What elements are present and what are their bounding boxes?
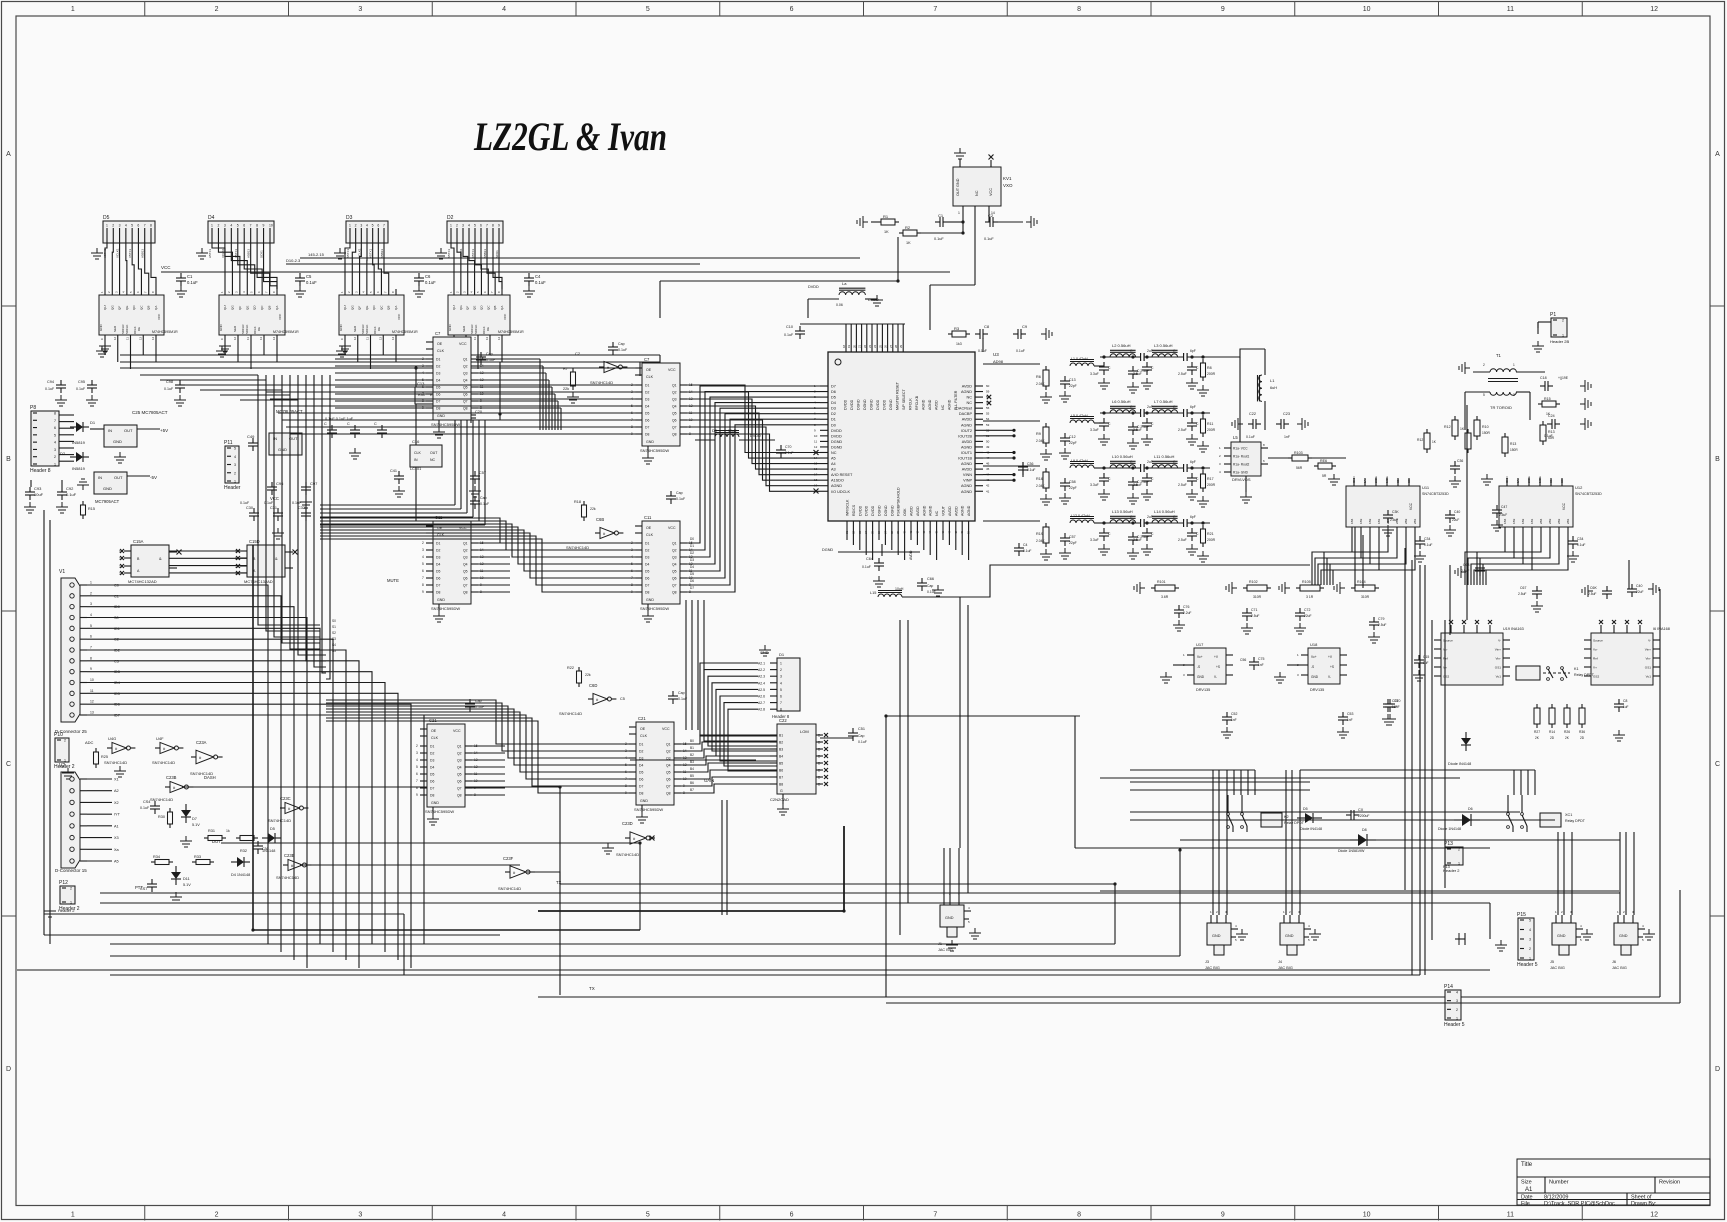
svg-text:D7: D7 bbox=[831, 385, 836, 389]
svg-text:U4G: U4G bbox=[108, 736, 116, 741]
svg-text:C67: C67 bbox=[1520, 586, 1526, 590]
svg-text:OE: OE bbox=[646, 526, 652, 530]
svg-text:7: 7 bbox=[383, 224, 385, 228]
svg-text:C4: C4 bbox=[535, 274, 541, 279]
svg-text:D5: D5 bbox=[436, 386, 440, 390]
svg-text:2: 2 bbox=[780, 668, 782, 672]
svg-text:D2: D2 bbox=[645, 391, 649, 395]
svg-text:8: 8 bbox=[422, 583, 424, 587]
svg-text:13: 13 bbox=[683, 756, 687, 760]
svg-text:OE: OE bbox=[431, 729, 437, 733]
svg-text:C2N2OAD: C2N2OAD bbox=[770, 797, 789, 802]
svg-text:3: 3 bbox=[422, 548, 424, 552]
svg-text:Q6: Q6 bbox=[672, 419, 677, 423]
svg-text:4: 4 bbox=[1529, 928, 1531, 932]
svg-text:C36: C36 bbox=[1027, 462, 1033, 466]
svg-text:14: 14 bbox=[814, 456, 818, 460]
svg-text:18: 18 bbox=[842, 344, 846, 348]
svg-text:2.5uF: 2.5uF bbox=[1518, 592, 1526, 596]
svg-text:22k: 22k bbox=[590, 507, 596, 511]
svg-text:GND: GND bbox=[646, 598, 654, 602]
svg-text:16: 16 bbox=[814, 467, 818, 471]
svg-text:DGND: DGND bbox=[863, 399, 867, 410]
svg-text:CLK: CLK bbox=[646, 533, 654, 537]
svg-text:C23F: C23F bbox=[503, 856, 514, 861]
svg-text:A5: A5 bbox=[114, 860, 119, 864]
svg-text:4: 4 bbox=[780, 681, 782, 685]
svg-text:11: 11 bbox=[814, 439, 817, 443]
svg-text:C53: C53 bbox=[1347, 712, 1353, 716]
svg-text:10: 10 bbox=[90, 678, 94, 682]
svg-text:1uF: 1uF bbox=[1392, 705, 1398, 709]
svg-text:C: C bbox=[347, 422, 350, 426]
svg-text:0.1uF: 0.1uF bbox=[164, 387, 174, 391]
svg-text:Cap: Cap bbox=[858, 734, 864, 738]
svg-text:C23C: C23C bbox=[280, 796, 291, 801]
svg-text:3.3uF: 3.3uF bbox=[1090, 538, 1099, 542]
svg-text:QF: QF bbox=[358, 306, 362, 310]
svg-text:S1: S1 bbox=[1549, 479, 1553, 483]
svg-text:10uF: 10uF bbox=[34, 492, 44, 497]
svg-text:1: 1 bbox=[70, 901, 72, 905]
svg-text:JAC BIG: JAC BIG bbox=[1278, 966, 1293, 970]
svg-text:12: 12 bbox=[683, 763, 687, 767]
svg-text:2uF: 2uF bbox=[1147, 460, 1153, 464]
svg-text:4: 4 bbox=[502, 1212, 506, 1219]
svg-text:GND: GND bbox=[640, 799, 648, 803]
svg-text:A1: A1 bbox=[114, 824, 119, 828]
svg-text:SN74HC595DW: SN74HC595DW bbox=[640, 606, 669, 611]
svg-text:U19 INA163: U19 INA163 bbox=[1503, 627, 1524, 631]
svg-text:S/P SELECT: S/P SELECT bbox=[902, 388, 906, 410]
svg-text:0.1uF: 0.1uF bbox=[306, 280, 317, 285]
svg-text:C: C bbox=[1715, 761, 1720, 768]
svg-text:V-: V- bbox=[1214, 675, 1217, 679]
svg-text:DVDD: DVDD bbox=[865, 505, 869, 516]
svg-text:DVDD: DVDD bbox=[883, 399, 887, 410]
svg-text:R16: R16 bbox=[1036, 477, 1043, 481]
svg-text:R101: R101 bbox=[1157, 580, 1166, 584]
svg-text:A4: A4 bbox=[831, 462, 836, 466]
svg-text:Q5: Q5 bbox=[463, 386, 468, 390]
svg-text:8: 8 bbox=[90, 656, 92, 660]
svg-text:A: A bbox=[6, 151, 11, 158]
svg-text:LOM: LOM bbox=[800, 729, 809, 734]
svg-text:1B1: 1B1 bbox=[1530, 518, 1534, 524]
svg-text:QF: QF bbox=[466, 306, 470, 310]
svg-text:25: 25 bbox=[878, 344, 882, 348]
svg-text:QG: QG bbox=[459, 305, 463, 310]
svg-text:SN74HC14D: SN74HC14D bbox=[498, 886, 521, 891]
svg-text:Number: Number bbox=[1549, 1180, 1569, 1186]
svg-text:DGND: DGND bbox=[870, 399, 874, 410]
svg-text:0.1uF: 0.1uF bbox=[140, 806, 150, 810]
svg-text:C 2.5uF: C 2.5uF bbox=[1137, 480, 1149, 484]
svg-text:Vo-: Vo- bbox=[1593, 648, 1598, 652]
svg-text:Q8: Q8 bbox=[672, 591, 677, 595]
svg-text:2: 2 bbox=[456, 224, 458, 228]
svg-text:1: 1 bbox=[106, 224, 108, 228]
svg-text:GND: GND bbox=[1352, 476, 1356, 484]
svg-text:D3: D3 bbox=[831, 407, 836, 411]
svg-text:2B2: 2B2 bbox=[1557, 518, 1561, 524]
svg-text:4: 4 bbox=[125, 224, 127, 228]
svg-text:0.1uF: 0.1uF bbox=[785, 451, 793, 455]
svg-text:Q6: Q6 bbox=[666, 778, 671, 782]
svg-text:X5TX1: X5TX1 bbox=[471, 248, 475, 258]
svg-text:NC: NC bbox=[935, 510, 939, 516]
svg-text:NC: NC bbox=[967, 401, 973, 405]
svg-text:3.3uF: 3.3uF bbox=[1090, 372, 1099, 376]
svg-text:0.1uF: 0.1uF bbox=[862, 565, 871, 569]
svg-text:U3: U3 bbox=[993, 352, 999, 357]
svg-text:Q8: Q8 bbox=[457, 794, 462, 798]
svg-text:VCC: VCC bbox=[989, 188, 993, 196]
svg-text:R25: R25 bbox=[101, 755, 108, 759]
svg-text:Title: Title bbox=[1521, 1162, 1533, 1168]
svg-text:P13: P13 bbox=[1443, 865, 1450, 869]
svg-text:1B4: 1B4 bbox=[1503, 518, 1507, 524]
svg-text:AGND: AGND bbox=[961, 484, 972, 488]
svg-text:S1: S1 bbox=[1396, 479, 1400, 483]
svg-text:3: 3 bbox=[358, 1212, 362, 1219]
svg-text:A2.8: A2.8 bbox=[758, 708, 765, 712]
svg-text:C3K: C3K bbox=[1392, 510, 1399, 514]
svg-text:GND: GND bbox=[1311, 675, 1319, 679]
svg-text:VINN: VINN bbox=[963, 473, 972, 477]
svg-text:55: 55 bbox=[986, 412, 990, 416]
svg-text:GND: GND bbox=[99, 324, 103, 332]
svg-text:6: 6 bbox=[416, 772, 418, 776]
svg-text:L1: L1 bbox=[1270, 378, 1275, 383]
svg-text:AGND: AGND bbox=[831, 484, 842, 488]
svg-text:0.1uF: 0.1uF bbox=[240, 501, 250, 505]
svg-text:9: 9 bbox=[1221, 1212, 1225, 1219]
svg-text:C: C bbox=[6, 761, 11, 768]
svg-text:R1a- VCC: R1a- VCC bbox=[1233, 447, 1248, 451]
svg-text:1: 1 bbox=[211, 224, 213, 228]
svg-text:6pF: 6pF bbox=[1190, 349, 1196, 353]
svg-text:B8: B8 bbox=[779, 783, 783, 787]
svg-text:Q6: Q6 bbox=[463, 577, 468, 581]
svg-text:Cap: Cap bbox=[676, 491, 683, 495]
svg-text:J3: J3 bbox=[1205, 960, 1209, 964]
svg-text:C93: C93 bbox=[34, 486, 42, 491]
svg-text:L10 0.56uH: L10 0.56uH bbox=[1112, 454, 1133, 459]
svg-text:QH': QH' bbox=[103, 305, 107, 311]
svg-text:AVDD: AVDD bbox=[910, 506, 914, 516]
svg-text:QB: QB bbox=[147, 306, 151, 310]
svg-text:D8: D8 bbox=[639, 792, 643, 796]
svg-text:B0: B0 bbox=[690, 739, 694, 743]
svg-text:6: 6 bbox=[54, 426, 56, 430]
svg-text:Q2: Q2 bbox=[463, 549, 468, 553]
svg-text:Vin+: Vin+ bbox=[1495, 648, 1501, 652]
svg-text:IOUT1: IOUT1 bbox=[961, 451, 972, 455]
svg-text:C2: C2 bbox=[575, 351, 581, 356]
svg-text:C1: C1 bbox=[187, 274, 193, 279]
svg-text:R105: R105 bbox=[1302, 580, 1311, 584]
svg-text:2B3: 2B3 bbox=[1548, 518, 1552, 524]
svg-text:7: 7 bbox=[54, 419, 56, 423]
svg-text:La: La bbox=[842, 281, 847, 286]
svg-text:C2: C2 bbox=[988, 213, 994, 218]
svg-text:B1: B1 bbox=[690, 746, 694, 750]
svg-text:DGND: DGND bbox=[889, 399, 893, 410]
svg-text:A5: A5 bbox=[831, 457, 836, 461]
svg-text:VCC: VCC bbox=[157, 313, 161, 320]
svg-text:0.1uF: 0.1uF bbox=[1246, 435, 1255, 439]
svg-text:SRCLK: SRCLK bbox=[474, 325, 478, 334]
svg-text:P11: P11 bbox=[224, 440, 233, 446]
svg-text:3: 3 bbox=[360, 224, 362, 228]
svg-text:C56: C56 bbox=[1240, 658, 1246, 662]
svg-text:J4: J4 bbox=[1278, 960, 1282, 964]
svg-text:D1: D1 bbox=[690, 544, 694, 548]
svg-text:OSK: OSK bbox=[903, 508, 907, 516]
svg-text:AVDD: AVDD bbox=[962, 418, 973, 422]
svg-text:VCC: VCC bbox=[662, 727, 670, 731]
svg-text:C13: C13 bbox=[1069, 378, 1076, 382]
svg-text:V1: V1 bbox=[59, 569, 65, 575]
svg-text:Source: Source bbox=[1593, 639, 1603, 643]
svg-text:D4: D4 bbox=[645, 405, 649, 409]
svg-text:D7: D7 bbox=[639, 785, 643, 789]
svg-text:GND: GND bbox=[103, 486, 112, 491]
svg-text:2.5uF: 2.5uF bbox=[1178, 483, 1187, 487]
svg-text:C36: C36 bbox=[1457, 459, 1463, 463]
svg-text:C10: C10 bbox=[786, 325, 793, 329]
svg-text:2: 2 bbox=[1562, 319, 1564, 323]
svg-text:C8: C8 bbox=[1623, 699, 1627, 703]
svg-text:AGND: AGND bbox=[928, 399, 932, 410]
svg-text:SER: SER bbox=[462, 325, 466, 332]
svg-text:-S: -S bbox=[1311, 665, 1314, 669]
svg-text:B: B bbox=[1715, 456, 1720, 463]
svg-text:Header 5: Header 5 bbox=[1444, 1022, 1465, 1028]
svg-text:R13: R13 bbox=[1548, 430, 1555, 434]
svg-text:S0: S0 bbox=[332, 619, 336, 623]
svg-text:D6: D6 bbox=[430, 780, 434, 784]
svg-text:S0: S0 bbox=[1560, 479, 1564, 483]
svg-text:23: 23 bbox=[868, 344, 872, 348]
svg-text:14: 14 bbox=[272, 336, 276, 340]
svg-text:3: 3 bbox=[224, 224, 226, 228]
svg-text:12: 12 bbox=[233, 336, 237, 340]
svg-text:2: 2 bbox=[1483, 363, 1485, 367]
svg-text:310R: 310R bbox=[1361, 595, 1370, 599]
svg-text:FSK/BPSK/HOLD: FSK/BPSK/HOLD bbox=[897, 487, 901, 516]
svg-text:NC: NC bbox=[430, 458, 436, 462]
svg-text:5.1V: 5.1V bbox=[183, 883, 191, 887]
svg-text:1B4: 1B4 bbox=[1350, 518, 1354, 524]
svg-text:2: 2 bbox=[215, 6, 219, 13]
svg-text:L5 0.47uH: L5 0.47uH bbox=[1071, 414, 1088, 418]
svg-text:Q3: Q3 bbox=[672, 398, 677, 402]
svg-text:MC7905ACT: MC7905ACT bbox=[95, 499, 120, 504]
svg-text:14: 14 bbox=[391, 336, 395, 340]
svg-text:Q5: Q5 bbox=[672, 412, 677, 416]
svg-text:B1: B1 bbox=[779, 734, 783, 738]
svg-text:DVDD: DVDD bbox=[831, 434, 842, 438]
svg-text:OE: OE bbox=[486, 327, 490, 331]
svg-text:AVDD: AVDD bbox=[909, 550, 913, 560]
svg-text:DACRset: DACRset bbox=[956, 407, 973, 411]
svg-text:11: 11 bbox=[246, 337, 250, 340]
svg-text:R15: R15 bbox=[1544, 397, 1551, 401]
svg-text:QG: QG bbox=[230, 305, 234, 310]
svg-text:D: D bbox=[1715, 1066, 1720, 1073]
svg-text:Q2: Q2 bbox=[672, 391, 677, 395]
svg-text:2.04K: 2.04K bbox=[1036, 382, 1045, 386]
svg-text:A5B13: A5B13 bbox=[141, 249, 145, 258]
svg-text:M74HC595M1R: M74HC595M1R bbox=[392, 330, 418, 334]
svg-text:7: 7 bbox=[250, 224, 252, 228]
svg-text:2: 2 bbox=[416, 744, 418, 748]
svg-text:4: 4 bbox=[468, 224, 470, 228]
svg-text:Q3: Q3 bbox=[463, 556, 468, 560]
svg-text:Cap: Cap bbox=[480, 496, 487, 500]
svg-text:C70: C70 bbox=[785, 445, 791, 449]
svg-text:7: 7 bbox=[933, 6, 937, 13]
svg-text:SN74HC14D: SN74HC14D bbox=[559, 711, 582, 716]
svg-text:A2.3: A2.3 bbox=[758, 675, 765, 679]
svg-text:CLK: CLK bbox=[414, 451, 421, 455]
svg-text:Q1: Q1 bbox=[463, 358, 468, 362]
svg-text:D1: D1 bbox=[90, 420, 96, 425]
svg-text:17: 17 bbox=[814, 473, 818, 477]
svg-text:Q5: Q5 bbox=[457, 773, 462, 777]
svg-text:SN74CBT3253D: SN74CBT3253D bbox=[1575, 492, 1602, 496]
svg-text:Q3: Q3 bbox=[672, 556, 677, 560]
svg-text:DVDD: DVDD bbox=[750, 434, 761, 438]
svg-text:SN74HC595DW: SN74HC595DW bbox=[425, 809, 454, 814]
svg-text:3: 3 bbox=[90, 602, 92, 606]
svg-text:1: 1 bbox=[958, 211, 960, 215]
svg-text:22: 22 bbox=[863, 344, 867, 348]
svg-text:Q1: Q1 bbox=[463, 542, 468, 546]
svg-text:X1: X1 bbox=[114, 778, 119, 782]
svg-text:SN74HC595DW: SN74HC595DW bbox=[431, 606, 460, 611]
svg-text:50: 50 bbox=[986, 439, 990, 443]
svg-text:8: 8 bbox=[256, 224, 258, 228]
svg-text:X2: X2 bbox=[114, 801, 119, 805]
svg-text:Date: Date bbox=[1521, 1195, 1533, 1201]
svg-text:VXO: VXO bbox=[1003, 183, 1013, 188]
svg-text:0.1uF: 0.1uF bbox=[45, 387, 55, 391]
svg-text:D4: D4 bbox=[639, 764, 643, 768]
svg-text:NC: NC bbox=[831, 451, 837, 455]
svg-text:VCC: VCC bbox=[503, 313, 507, 320]
svg-text:Q3: Q3 bbox=[457, 759, 462, 763]
svg-text:D5: D5 bbox=[270, 827, 275, 831]
svg-text:R7: R7 bbox=[563, 367, 568, 371]
svg-text:R19: R19 bbox=[1036, 532, 1043, 536]
svg-text:MASTER RESET: MASTER RESET bbox=[896, 381, 900, 410]
svg-text:150R: 150R bbox=[1510, 448, 1518, 452]
svg-text:14: 14 bbox=[151, 336, 155, 340]
svg-text:IN: IN bbox=[108, 428, 112, 433]
svg-text:Q4: Q4 bbox=[666, 764, 671, 768]
svg-text:C24: C24 bbox=[1548, 414, 1555, 418]
svg-text:22uF: 22uF bbox=[1304, 614, 1312, 618]
svg-text:DRVLVDS: DRVLVDS bbox=[1232, 477, 1251, 482]
svg-text:A2.4: A2.4 bbox=[758, 681, 765, 685]
svg-text:GS2: GS2 bbox=[1443, 675, 1449, 679]
svg-text:8: 8 bbox=[416, 786, 418, 790]
svg-text:D3: D3 bbox=[645, 398, 649, 402]
svg-text:27: 27 bbox=[889, 344, 893, 348]
svg-text:1nF: 1nF bbox=[1347, 718, 1353, 722]
svg-text:2B1: 2B1 bbox=[1413, 518, 1417, 524]
svg-text:1A: 1A bbox=[1363, 479, 1367, 483]
svg-text:C79: C79 bbox=[1378, 617, 1384, 621]
svg-text:0.1uF: 0.1uF bbox=[1023, 549, 1031, 553]
svg-text:A5TX1: A5TX1 bbox=[346, 248, 350, 258]
svg-text:R14: R14 bbox=[1549, 730, 1555, 734]
svg-text:3 1R: 3 1R bbox=[1306, 595, 1314, 599]
svg-text:AGND: AGND bbox=[922, 505, 926, 516]
svg-text:D7: D7 bbox=[436, 584, 440, 588]
svg-text:B6: B6 bbox=[779, 769, 783, 773]
svg-text:4: 4 bbox=[422, 555, 424, 559]
svg-text:22uF: 22uF bbox=[1452, 518, 1459, 522]
svg-text:V-: V- bbox=[1648, 639, 1651, 643]
svg-text:Q8: Q8 bbox=[666, 792, 671, 796]
svg-text:SN74HC14D: SN74HC14D bbox=[616, 852, 639, 857]
svg-text:D1: D1 bbox=[436, 358, 440, 362]
svg-text:OUT: OUT bbox=[124, 428, 133, 433]
svg-text:IN: IN bbox=[414, 458, 418, 462]
svg-text:2: 2 bbox=[215, 1212, 219, 1219]
svg-text:R1a- Rout1: R1a- Rout1 bbox=[1233, 455, 1250, 459]
svg-text:D6: D6 bbox=[645, 419, 649, 423]
svg-text:R3: R3 bbox=[954, 326, 960, 331]
svg-text:Vo1: Vo1 bbox=[1646, 675, 1652, 679]
svg-text:7: 7 bbox=[416, 779, 418, 783]
svg-text:Q2: Q2 bbox=[463, 365, 468, 369]
svg-text:1B3: 1B3 bbox=[1512, 518, 1516, 524]
svg-text:Header: Header bbox=[224, 485, 241, 491]
svg-text:NC: NC bbox=[975, 190, 979, 196]
svg-text:AD98: AD98 bbox=[993, 359, 1004, 364]
svg-text:5: 5 bbox=[422, 562, 424, 566]
svg-text:C22: C22 bbox=[1249, 412, 1256, 416]
svg-text:QB: QB bbox=[493, 306, 497, 310]
svg-text:B7: B7 bbox=[690, 788, 694, 792]
svg-text:SN74HC595DW: SN74HC595DW bbox=[634, 807, 663, 812]
svg-text:Header 5: Header 5 bbox=[1517, 962, 1538, 968]
svg-text:R9: R9 bbox=[1036, 432, 1041, 436]
svg-text:R1a- Rout2: R1a- Rout2 bbox=[1233, 463, 1250, 467]
svg-text:JAC BIG: JAC BIG bbox=[1205, 966, 1220, 970]
svg-text:B7: B7 bbox=[779, 776, 783, 780]
svg-text:Ref: Ref bbox=[1593, 657, 1598, 661]
svg-text:QH': QH' bbox=[223, 305, 227, 311]
svg-text:Sheet of: Sheet of bbox=[1631, 1195, 1652, 1201]
svg-text:A2.7: A2.7 bbox=[758, 701, 765, 705]
svg-text:D5: D5 bbox=[436, 570, 440, 574]
svg-text:D2: D2 bbox=[430, 752, 434, 756]
svg-text:5: 5 bbox=[646, 6, 650, 13]
svg-text:A5B13: A5B13 bbox=[247, 249, 251, 258]
svg-text:R36: R36 bbox=[1579, 730, 1585, 734]
svg-text:C34: C34 bbox=[1424, 537, 1430, 541]
svg-text:R32: R32 bbox=[240, 849, 247, 853]
svg-text:I/O UDCLK: I/O UDCLK bbox=[831, 490, 850, 494]
svg-text:2: 2 bbox=[64, 739, 66, 743]
svg-text:B: B bbox=[6, 456, 11, 463]
